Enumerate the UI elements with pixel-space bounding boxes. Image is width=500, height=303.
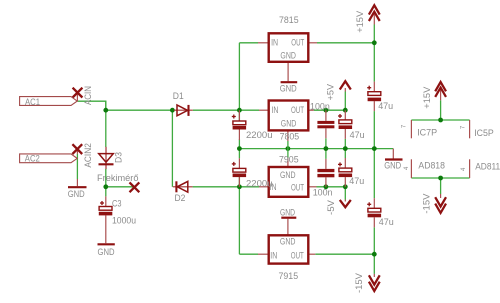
svg-text:47u: 47u (350, 130, 365, 140)
svg-text:47u: 47u (378, 101, 393, 111)
svg-text:OUT: OUT (291, 182, 304, 192)
svg-text:D3: D3 (113, 152, 123, 163)
svg-text:IC5P: IC5P (474, 128, 494, 138)
svg-text:AD811: AD811 (475, 162, 500, 172)
svg-text:GND: GND (280, 83, 297, 93)
svg-text:D1: D1 (173, 91, 184, 101)
svg-text:7915: 7915 (279, 271, 299, 281)
svg-text:IC7P: IC7P (417, 127, 437, 137)
svg-text:ACIN2: ACIN2 (83, 143, 93, 168)
svg-text:GND: GND (281, 119, 297, 129)
svg-text:OUT: OUT (291, 250, 304, 260)
svg-text:OUT: OUT (291, 37, 304, 47)
svg-text:7805: 7805 (280, 131, 300, 141)
svg-text:D2: D2 (175, 193, 186, 203)
svg-text:GND: GND (384, 160, 401, 170)
svg-text:2200u: 2200u (246, 130, 273, 140)
svg-text:GND: GND (98, 247, 115, 257)
svg-text:AD818: AD818 (418, 161, 445, 171)
svg-text:IN: IN (271, 38, 278, 48)
svg-text:+5V: +5V (326, 84, 336, 101)
svg-text:OUT: OUT (291, 105, 304, 115)
svg-text:IN: IN (271, 105, 278, 115)
svg-text:GND: GND (280, 170, 296, 180)
svg-text:47u: 47u (349, 176, 364, 186)
svg-text:GND: GND (280, 237, 296, 247)
svg-text:AC2: AC2 (25, 154, 40, 164)
svg-text:1000u: 1000u (112, 215, 136, 225)
svg-text:+15V: +15V (422, 87, 432, 109)
svg-text:IN: IN (270, 250, 277, 260)
svg-text:100n: 100n (313, 188, 333, 198)
svg-text:GND: GND (280, 51, 296, 61)
svg-text:ACIN: ACIN (83, 86, 93, 105)
svg-text:-15V: -15V (421, 194, 431, 214)
svg-text:Frekimérő: Frekimérő (97, 173, 139, 183)
svg-text:7905: 7905 (279, 154, 299, 164)
svg-text:+15V: +15V (355, 11, 365, 33)
svg-text:GND: GND (280, 207, 295, 217)
svg-text:7815: 7815 (279, 15, 299, 25)
svg-text:AC1: AC1 (25, 97, 40, 107)
svg-text:-5V: -5V (326, 200, 336, 215)
svg-text:C3: C3 (112, 198, 122, 208)
svg-text:47u: 47u (379, 217, 394, 227)
svg-text:-15V: -15V (354, 273, 364, 293)
svg-text:100n: 100n (310, 102, 330, 112)
svg-text:GND: GND (68, 189, 85, 199)
svg-text:2200u: 2200u (246, 178, 273, 188)
